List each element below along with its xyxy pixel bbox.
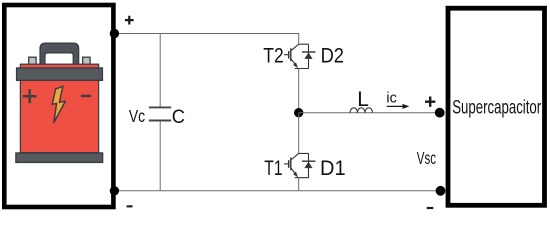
supercapacitor box (448, 8, 545, 205)
junction: bottom rail to supercapacitor (436, 186, 446, 196)
diode D1 (295, 153, 316, 177)
capacitor C plates (149, 107, 171, 120)
inductor L coil (350, 108, 373, 113)
junction: middle wire to supercapacitor (435, 108, 445, 118)
battery minus symbol (81, 95, 91, 98)
svg-text:T1: T1 (264, 156, 282, 180)
wire: T2 emitter down to middle node (298, 69, 300, 113)
capacitor C bottom leg wire (159, 121, 161, 191)
svg-text:Vc: Vc (129, 106, 145, 126)
svg-text:L: L (357, 88, 369, 111)
junction: middle node at T2/T1 leg (294, 108, 303, 117)
node + (battery positive terminal label) (125, 16, 134, 25)
battery terminal post right (83, 57, 90, 67)
junction: battery - to bottom rail (110, 186, 119, 195)
svg-text:ic: ic (386, 89, 397, 106)
node - (supercapacitor negative) (427, 207, 434, 209)
battery cap band (17, 68, 103, 80)
transistor T1 (IGBT) (284, 153, 299, 177)
battery base band (16, 153, 103, 162)
battery lightning bolt (52, 86, 65, 122)
svg-text:T2: T2 (263, 44, 283, 68)
svg-text:Supercapacitor: Supercapacitor (452, 98, 541, 119)
wire: bottom rail from battery to supercapacitor (113, 190, 441, 192)
svg-text:Vsc: Vsc (417, 148, 436, 168)
battery enclosure box (4, 5, 113, 207)
svg-text:D1: D1 (320, 156, 346, 180)
capacitor C top leg wire (159, 34, 161, 107)
wire: middle node to supercapacitor (299, 112, 440, 114)
battery terminal post left (29, 57, 36, 67)
battery body (20, 64, 98, 153)
diode D2 (295, 44, 316, 68)
transistor T2 (IGBT) (284, 44, 299, 67)
node - (battery negative terminal label) (127, 205, 133, 207)
battery plus symbol (23, 89, 37, 103)
wire: top rail from battery to T2 collector (113, 34, 299, 45)
svg-text:C: C (172, 106, 185, 128)
wire: T1 emitter down to bottom rail (298, 178, 300, 191)
battery handle (40, 43, 79, 65)
current arrow ic (387, 104, 410, 109)
node + (supercapacitor positive) (425, 97, 435, 107)
svg-text:D2: D2 (321, 44, 344, 68)
junction: battery + to top rail (110, 29, 119, 38)
wire: middle node down to T1 collector (298, 113, 300, 154)
